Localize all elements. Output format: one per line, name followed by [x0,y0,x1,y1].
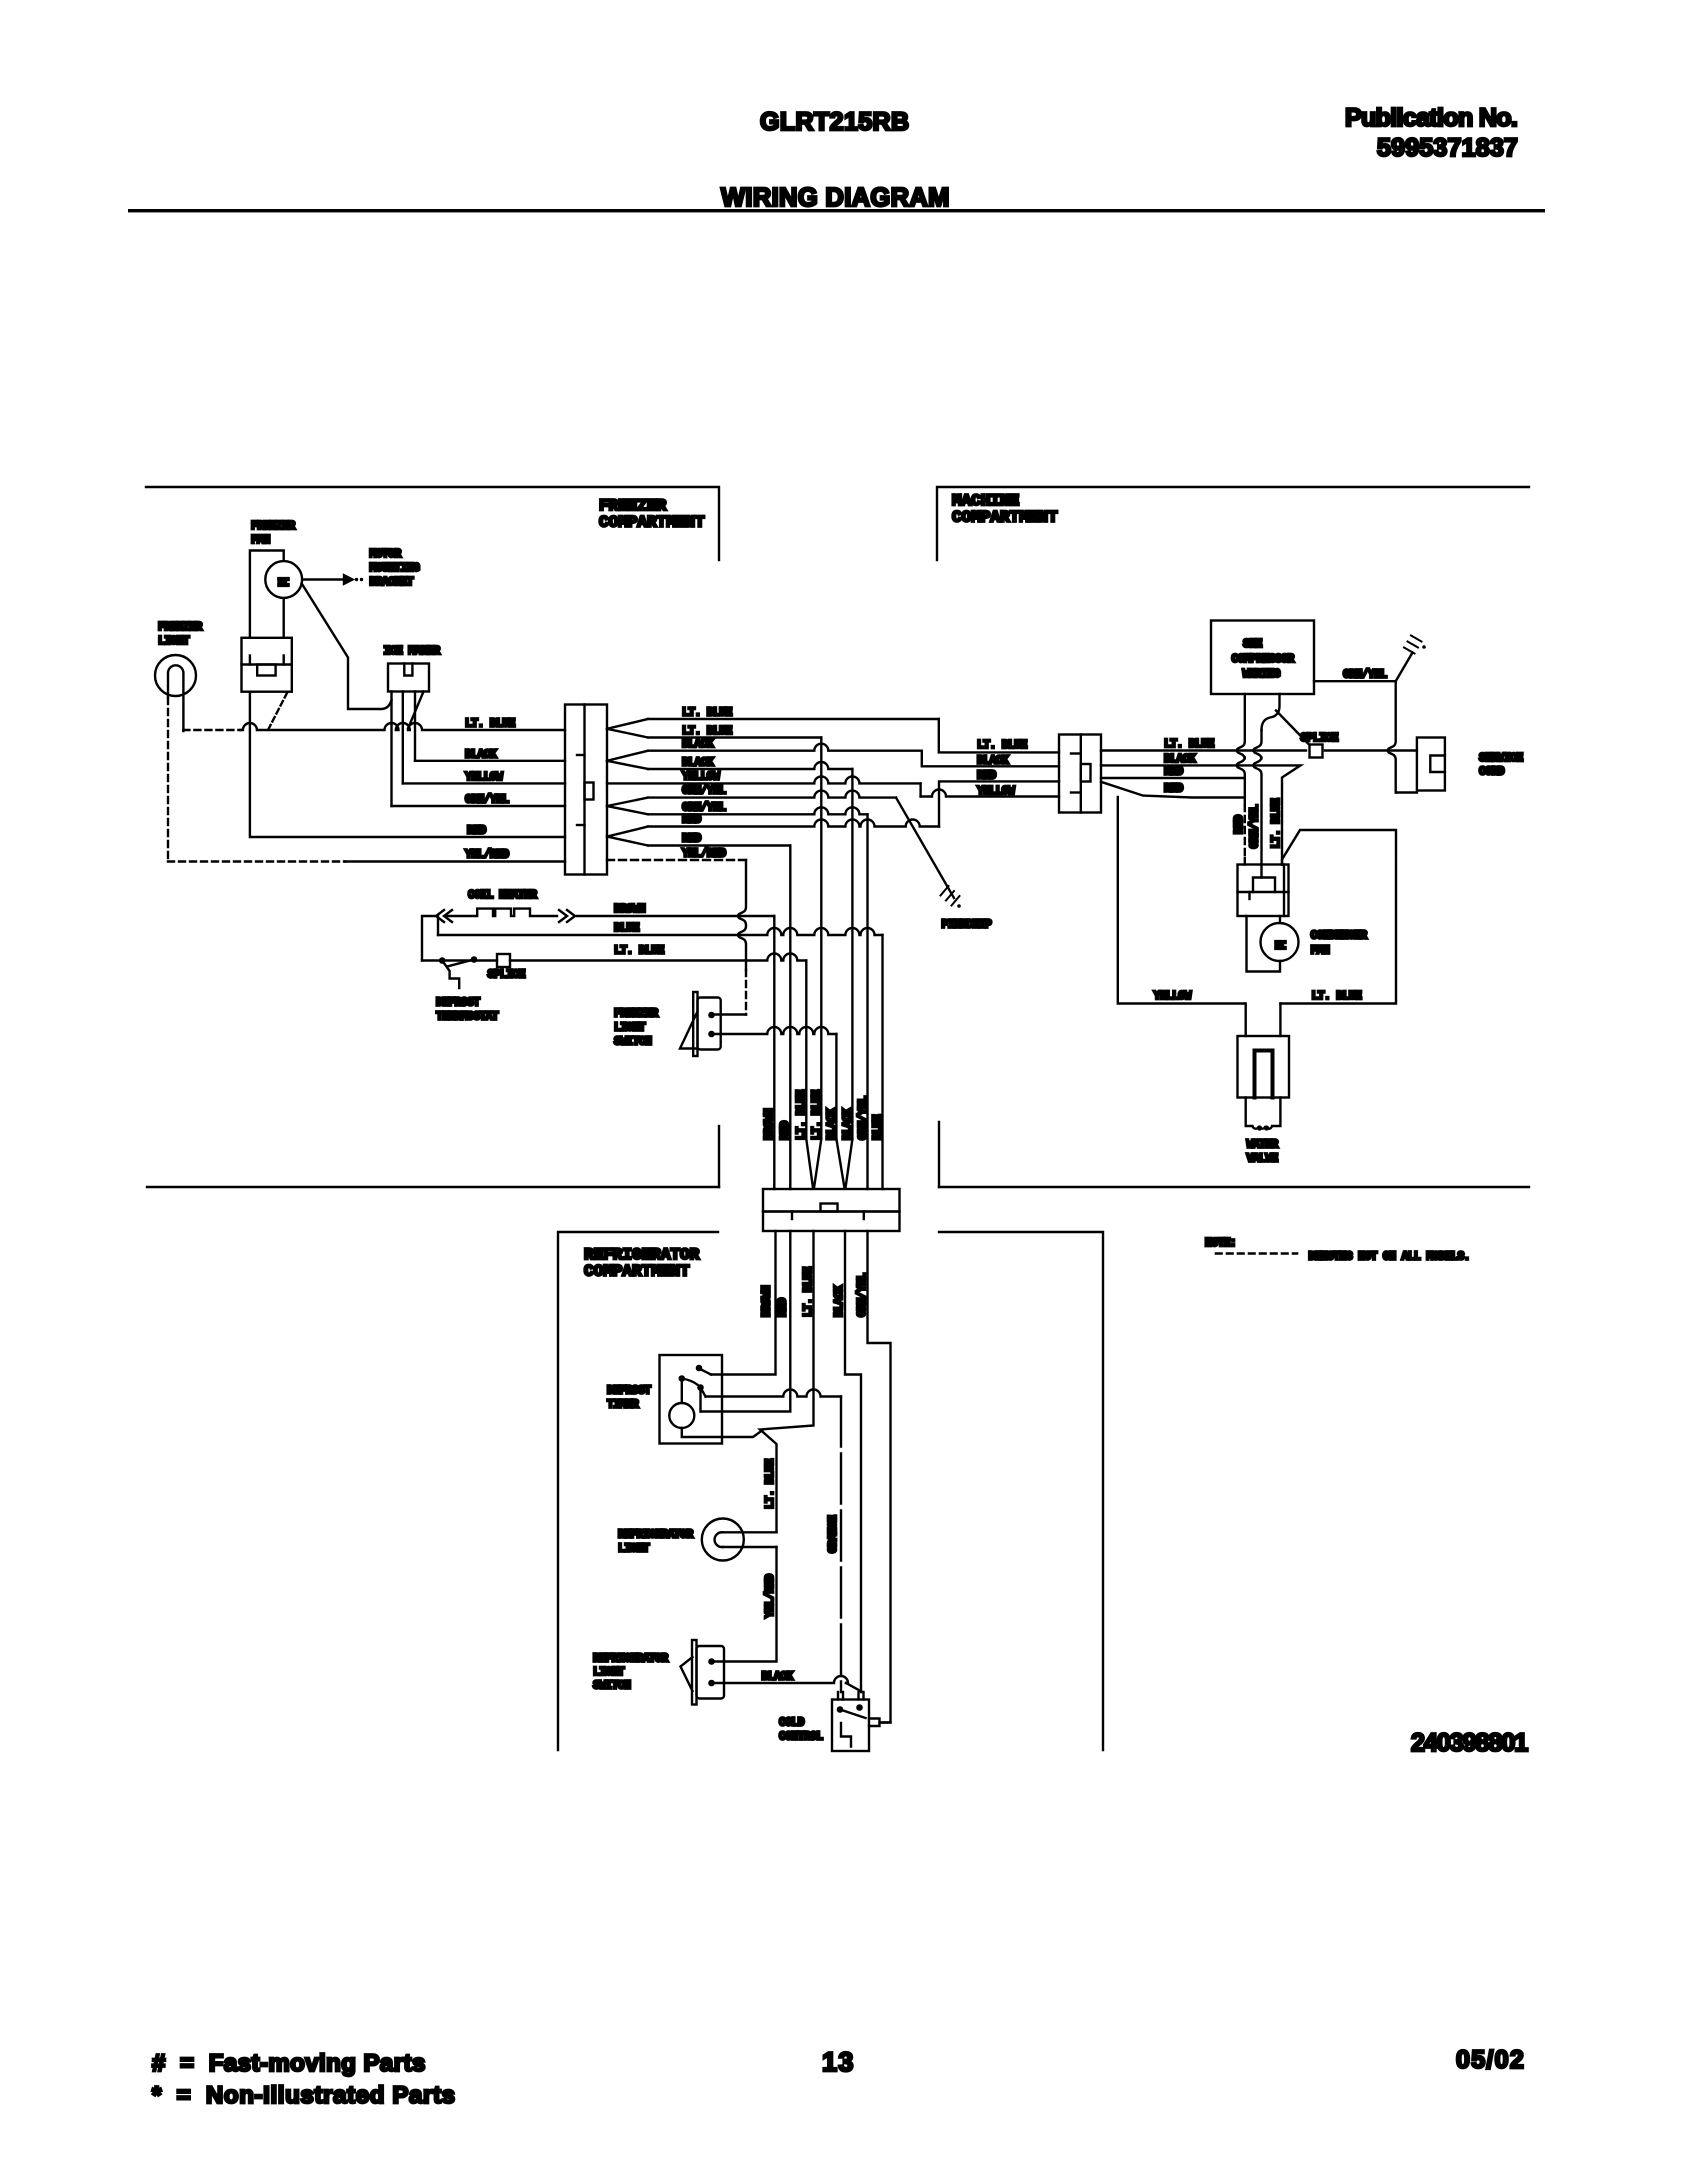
condenser fan connector block [1238,865,1289,917]
vertical lt.blue 2 [820,738,822,1140]
svg-text:RED: RED [1164,783,1183,796]
timer top contact [696,1365,703,1372]
svg-text:05/02: 05/02 [1456,2046,1525,2074]
svg-text:RED: RED [467,825,486,838]
svg-text:GRN/YEL: GRN/YEL [465,794,509,807]
grn/yel down [868,1231,891,1723]
svg-text:LT. BLUE: LT. BLUE [764,1459,777,1509]
svg-text:BROWN: BROWN [763,1108,776,1140]
svg-text:* = Non-Illustrated Parts: * = Non-Illustrated Parts [152,2082,456,2109]
svg-text:SPLICE: SPLICE [488,969,526,982]
svg-text:YELLOW: YELLOW [465,771,503,784]
svg-text:REFRIGERATOR: REFRIGERATOR [593,1653,668,1666]
black step into machine connector [922,751,1059,767]
svg-text:WATER: WATER [1247,1139,1279,1152]
cold control pins [837,1692,839,1700]
svg-text:FREEZER: FREEZER [251,520,295,533]
motor to ice maker wire [302,584,392,710]
freezer compartment border top [146,487,719,560]
machine compartment border left lower [938,1122,940,1187]
freezer light switch [693,992,697,1056]
black wire switch [712,1676,849,1683]
refrigerator light [702,1519,744,1561]
connector block pass-through [763,1189,900,1212]
water valve [1244,1004,1246,1037]
svg-text:LT. BLUE: LT. BLUE [977,739,1027,752]
wire lt.blue to connector [241,723,566,730]
svg-text:CONDENSER: CONDENSER [1311,930,1368,943]
vertical compressor red [1237,694,1245,778]
machine compartment border top [937,487,1529,560]
grn/yel earth wire [1314,680,1396,682]
compressor wire grn/yel down to condenser [1262,694,1280,730]
black down [845,1231,861,1692]
dashed lead from fan block [268,693,287,730]
orange wire [706,1390,842,1397]
svg-text:VALVE: VALVE [1247,1153,1279,1166]
svg-text:MOUNTING: MOUNTING [370,562,420,575]
condenser circuit box [1118,797,1245,1004]
svg-text:RED: RED [779,1121,792,1140]
svg-text:LT. BLUE: LT. BLUE [682,707,732,720]
svg-text:YELLOW: YELLOW [977,785,1015,798]
svg-text:REFRIGERATOR: REFRIGERATOR [584,1246,700,1264]
arm to orange wire [701,1388,706,1397]
vertical grn/yel 2 [866,814,868,1189]
svg-text:FAN: FAN [251,534,270,547]
svg-text:SEE: SEE [1243,638,1262,651]
svg-text:COMPARTMENT: COMPARTMENT [599,514,705,532]
note dashed sample [1216,1252,1297,1255]
freezer compartment border right lower [718,1126,720,1187]
svg-text:WIRING: WIRING [1243,668,1281,681]
svg-text:COMPARTMENT: COMPARTMENT [952,509,1058,527]
wire grn/yel 1 [648,791,896,798]
red wire 2 fan [1101,782,1245,798]
red to defrost timer [701,1231,791,1412]
wire black 1 [648,744,922,751]
ice maker pin A / grn-yel lead [390,692,392,807]
svg-text:GRN/YEL: GRN/YEL [1343,669,1387,682]
timer motor bottom wire [682,1428,762,1437]
heater inner leg to blue [437,916,439,935]
svg-text:LT. BLUE: LT. BLUE [682,725,732,738]
earth hash mark [1404,648,1415,654]
svg-text:COMPRESSOR: COMPRESSOR [1232,653,1295,666]
wire yel/red right [607,859,746,861]
svg-text:LT. BLUE: LT. BLUE [1164,738,1214,751]
timer switch arm [679,1375,686,1382]
svg-text:GLRT215RB: GLRT215RB [760,108,909,136]
vertical orange [840,1397,842,1693]
svg-text:240398801: 240398801 [1411,1729,1528,1757]
wire YEL/RED freezer from light [168,860,345,862]
svg-text:BLACK: BLACK [1164,753,1196,766]
svg-text:M: M [1274,940,1291,949]
ice maker pin D joins lt.blue wire [408,692,424,729]
wire black 2 [648,762,852,769]
refrigerator compartment border right [939,1232,1103,1750]
svg-text:BLUE: BLUE [872,1114,885,1140]
svg-text:LT. BLUE: LT. BLUE [465,718,515,731]
svg-text:RED: RED [682,833,701,846]
wire lt.blue heater [510,954,806,961]
svg-text:Publication No.: Publication No. [1345,104,1517,132]
svg-text:DEFROST: DEFROST [436,997,480,1010]
cold control contacts [837,1706,844,1713]
connector block machine [1059,735,1101,813]
wire YELLOW freezer [403,782,565,784]
svg-text:YEL/RED: YEL/RED [465,849,509,862]
svg-text:LT. BLUE: LT. BLUE [614,945,664,958]
freezer fan motor M1 [265,561,302,598]
yel/red to switch [712,1547,777,1662]
svg-text:RED: RED [777,1298,790,1317]
fan red lead [250,692,565,837]
svg-text:REFRIGERATOR: REFRIGERATOR [618,1529,693,1542]
vertical brown [773,916,775,1189]
ice maker pin C / black lead [414,692,416,761]
brown to defrost timer [711,1231,776,1375]
wire GRN/YEL freezer [392,805,566,807]
svg-text:BLACK: BLACK [762,1671,794,1684]
compressor wire to splice diagonal [1276,711,1310,746]
lt.blue to splice and service cord [1101,749,1306,751]
svg-text:BLACK: BLACK [826,1108,839,1140]
vertical yel/red dashed [745,970,747,1015]
svg-text:FREEZER: FREEZER [614,1008,658,1021]
ice maker [388,664,429,692]
svg-text:BRACKET: BRACKET [370,576,414,589]
svg-text:DENOTES NOT ON ALL MODELS.: DENOTES NOT ON ALL MODELS. [1309,1251,1470,1264]
svg-text:SWITCH: SWITCH [593,1680,631,1693]
svg-text:BLUE: BLUE [614,922,640,935]
svg-text:WIRING DIAGRAM: WIRING DIAGRAM [721,184,950,212]
black wire to condenser block [1101,765,1301,864]
title rule [128,209,1545,212]
fanout pin2 lenses [607,751,648,761]
freezer fan housing [250,551,284,638]
svg-text:LIGHT: LIGHT [158,635,190,648]
vertical black 1 refr [835,1034,837,1139]
cold control side terminal [869,1719,880,1727]
vertical blue [881,935,883,1189]
wire grn/yel 2 [648,807,868,814]
svg-text:ICE MAKER: ICE MAKER [384,645,441,658]
wire yellow [607,776,921,783]
fanout pin1 lenses [607,719,648,729]
svg-text:BLACK: BLACK [977,755,1009,768]
wire lt.blue 2 [648,736,821,738]
brown heater wire [577,915,774,917]
water valve coil body [1246,1098,1281,1129]
svg-text:LT. BLUE: LT. BLUE [1312,990,1362,1003]
condenser fan motor M [1261,923,1299,961]
svg-text:FREEZER: FREEZER [599,497,667,515]
svg-text:COIL HEATER: COIL HEATER [468,889,537,902]
svg-text:GRN/YEL: GRN/YEL [682,785,726,798]
wire BLACK freezer [415,760,565,762]
pinkchip lead [896,798,954,898]
svg-text:LIGHT: LIGHT [618,1543,650,1556]
vertical black 2 [851,769,853,1139]
wire LT.BLUE freezer [183,729,240,731]
heater left outer leg [422,916,435,961]
refrigerator light switch [692,1640,697,1705]
svg-text:PINKCHIP: PINKCHIP [942,919,992,932]
vertical lt.blue heater [805,961,807,1140]
svg-text:THERMOSTAT: THERMOSTAT [436,1011,499,1024]
compressor wiring box [1211,621,1314,695]
svg-text:MOTOR: MOTOR [370,548,402,561]
svg-text:FREEZER: FREEZER [158,621,202,634]
svg-text:ORANGE: ORANGE [827,1515,840,1553]
cold control box [832,1700,869,1752]
wire lt.blue 1 [648,718,939,720]
svg-text:RED: RED [977,770,996,783]
splice square freezer [497,954,510,967]
defrost thermostat [439,957,446,964]
fanout pin4 lenses [607,798,648,806]
svg-text:CORD: CORD [1479,766,1505,779]
svg-text:BLACK: BLACK [842,1108,855,1140]
freezer light [155,655,196,696]
svg-text:COLD: COLD [779,1717,805,1730]
lt.blue merge V [806,1139,813,1188]
lt.blue step into machine connector [939,719,1059,752]
refrigerator compartment border left [558,1232,718,1750]
coil heater element [446,909,557,916]
vertical red 2 [789,846,791,1190]
svg-text:GRN/YEL: GRN/YEL [1249,804,1262,848]
black merge V [836,1139,844,1188]
condenser fan motor wires [1247,916,1281,972]
service cord [1417,738,1445,791]
svg-text:LT. BLUE: LT. BLUE [1270,798,1283,848]
svg-text:GRN/YEL: GRN/YEL [857,1096,870,1140]
ice maker pin B / yellow lead [402,692,404,784]
svg-text:COMPARTMENT: COMPARTMENT [584,1263,690,1281]
freezer compartment border bottom [147,1186,719,1188]
red step up into machine connector [939,781,1059,826]
timer motor M [669,1403,694,1428]
wire red 1 [648,820,939,827]
svg-text:BLACK: BLACK [682,757,714,770]
red wire 1 [1101,778,1245,805]
svg-text:YELLOW: YELLOW [682,771,720,784]
wire yellow right [921,790,1059,797]
motor mounting bracket pointer [303,578,345,580]
vertical grn/yel service [1388,681,1396,792]
vertical yel/red [738,860,746,970]
svg-text:BLACK: BLACK [682,738,714,751]
svg-text:FAN: FAN [1311,945,1330,958]
fanout pin5 lenses [607,827,648,837]
svg-text:YELLOW: YELLOW [1154,990,1192,1003]
svg-text:BROWN: BROWN [614,903,646,916]
svg-text:DEFROST: DEFROST [607,1385,651,1398]
freezer fan connector block [242,638,292,692]
svg-text:CONTROL: CONTROL [779,1731,823,1744]
yellow step [919,783,921,796]
svg-text:RED: RED [1233,815,1246,834]
svg-text:13: 13 [822,2047,855,2077]
svg-text:TIMER: TIMER [607,1399,639,1412]
connector block freezer harness [565,705,607,875]
defrost timer box [660,1355,723,1444]
svg-text:LIGHT: LIGHT [593,1666,625,1679]
svg-text:SERVICE: SERVICE [1479,752,1523,765]
wire blue [438,928,883,935]
wire switch to black2 [712,1027,837,1034]
splice square machine [1310,745,1323,758]
pinkchip hash mark [941,886,949,896]
svg-text:LIGHT: LIGHT [614,1022,646,1035]
svg-text:YEL/RED: YEL/RED [764,1574,777,1618]
svg-text:5995371837: 5995371837 [1377,134,1518,162]
svg-text:LT. BLUE: LT. BLUE [811,1090,824,1140]
machine compartment border bottom [939,1186,1529,1188]
svg-text:BLACK: BLACK [465,749,497,762]
svg-text:MACHINE: MACHINE [952,492,1019,510]
coil heater right chevrons [559,910,575,922]
coil heater left chevrons [436,910,452,922]
switch top pin wire to yel/red [712,1013,747,1015]
svg-text:NOTE:: NOTE: [1205,1237,1236,1250]
wire lt.blue heater left [422,959,497,961]
svg-text:LT. BLUE: LT. BLUE [795,1090,808,1140]
svg-text:M: M [277,577,294,586]
lt.blue to timer junction [760,1231,814,1532]
svg-text:BROWN: BROWN [761,1285,774,1317]
vertical grn/yel condenser [1254,730,1262,865]
wire red 2 [648,844,790,846]
svg-text:SWITCH: SWITCH [614,1036,652,1049]
svg-text:RED: RED [682,814,701,827]
svg-text:# = Fast-moving Parts: # = Fast-moving Parts [152,2050,426,2077]
svg-text:RED: RED [1164,766,1183,779]
svg-text:YEL/RED: YEL/RED [682,848,726,861]
